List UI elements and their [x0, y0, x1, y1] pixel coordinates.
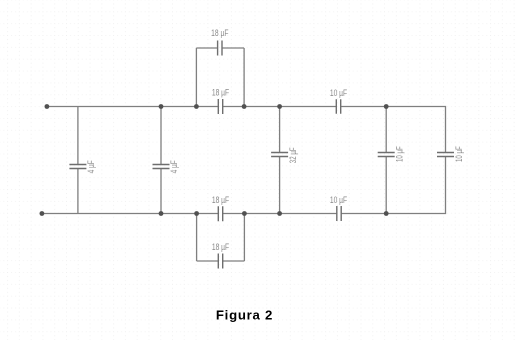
svg-text:4 µF: 4 µF: [169, 160, 179, 174]
capacitor C 18uF (bottom loop) plates: [218, 254, 222, 269]
wire branch x=78 bottom: [77, 169, 79, 214]
wire branch x=161 bottom: [160, 169, 162, 214]
node bottom x=196: [194, 211, 199, 216]
node bottom x=161: [159, 211, 164, 216]
capacitor C 18uF (top loop) plates: [218, 41, 222, 56]
svg-text:18 µF: 18 µF: [212, 88, 230, 98]
svg-text:4 µF: 4 µF: [86, 160, 96, 174]
capacitor C 10uF (bottom rail right) plates: [337, 206, 341, 221]
svg-text:10 µF: 10 µF: [454, 146, 464, 162]
node terminal bottom-left: [40, 211, 45, 216]
node bottom x=244: [242, 211, 247, 216]
wire bottom loop right vertical: [243, 214, 245, 262]
capacitor C 10uF (x=445) plates: [437, 153, 454, 157]
node bottom x=386: [384, 211, 389, 216]
wire top rail: [47, 107, 446, 153]
wire bottom rail: [42, 157, 446, 214]
wire bottom loop horizontal: [197, 260, 245, 262]
svg-text:18 µF: 18 µF: [212, 242, 230, 252]
capacitor C 32uF (x=280) plates: [271, 153, 288, 157]
wire branch x=386 top: [385, 107, 387, 153]
wire branch x=280 top: [279, 107, 281, 153]
svg-text:10 µF: 10 µF: [330, 195, 348, 205]
wire top loop horizontal: [196, 47, 244, 49]
node bottom x=280: [277, 211, 282, 216]
svg-text:32 µF: 32 µF: [288, 147, 298, 163]
node top x=244: [242, 104, 247, 109]
capacitor C 4uF (x=161) plates: [153, 165, 170, 169]
capacitor C 10uF (top rail right) plates: [336, 99, 340, 114]
node top x=161: [159, 104, 164, 109]
wire bottom loop left vertical: [196, 214, 198, 262]
svg-text:10 µF: 10 µF: [394, 146, 404, 162]
capacitor C 18uF (top rail) plates: [218, 99, 222, 114]
wire branch x=161 top: [160, 107, 162, 165]
capacitor C 10uF (x=386) plates: [378, 153, 395, 157]
node top x=196: [194, 104, 199, 109]
capacitor C 4uF (x=78) plates: [69, 165, 86, 169]
wire branch x=386 bottom: [385, 157, 387, 214]
svg-text:10 µF: 10 µF: [330, 88, 348, 98]
wire top loop left vertical: [195, 48, 197, 107]
node top x=386: [384, 104, 389, 109]
wire top loop right vertical: [243, 48, 245, 107]
node terminal top-left: [45, 104, 50, 109]
svg-text:Figura 2: Figura 2: [216, 308, 273, 323]
svg-text:18 µF: 18 µF: [212, 195, 230, 205]
capacitor C 18uF (bottom rail) plates: [218, 206, 222, 221]
wire branch x=280 bottom: [279, 157, 281, 214]
svg-text:18 µF: 18 µF: [211, 28, 229, 38]
wire branch x=78 top: [77, 107, 79, 165]
node top x=280: [277, 104, 282, 109]
